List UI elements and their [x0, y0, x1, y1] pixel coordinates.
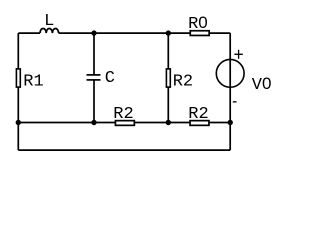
svg-text:L: L	[44, 12, 54, 31]
wire bottom return	[18, 149, 230, 151]
resistor R2 (bottom right)	[188, 105, 209, 125]
svg-text:R2: R2	[113, 105, 133, 124]
wire R2 branch vertical	[167, 33, 169, 122]
wire capacitor branch lower	[93, 80, 95, 123]
node C bus junction	[91, 120, 96, 125]
node L-C junction	[91, 30, 96, 35]
svg-text:V0: V0	[252, 74, 272, 95]
inductor L	[40, 12, 59, 33]
resistor R0	[188, 13, 209, 35]
wire middle bus	[18, 122, 230, 124]
node top R2 junction	[166, 30, 171, 35]
wire top-left segment	[18, 32, 40, 34]
svg-text:R2: R2	[188, 105, 208, 124]
wire capacitor branch upper	[93, 33, 95, 75]
voltage source V0	[216, 50, 271, 102]
resistor R2 (bottom middle)	[113, 105, 134, 125]
wire top bus from inductor to top-right corner	[59, 32, 231, 34]
resistor R1	[16, 69, 43, 92]
node left bus junction	[16, 120, 21, 125]
svg-text:R2: R2	[173, 73, 193, 92]
svg-text:R0: R0	[188, 13, 208, 34]
capacitor C	[87, 69, 115, 88]
node R2 bus junction	[166, 120, 171, 125]
svg-text:C: C	[105, 69, 115, 88]
resistor R2 (vertical)	[166, 69, 193, 92]
node V0 bus junction	[228, 120, 233, 125]
wire V0 branch vertical	[229, 33, 231, 150]
svg-text:R1: R1	[23, 73, 43, 92]
wire left vertical	[17, 33, 19, 150]
